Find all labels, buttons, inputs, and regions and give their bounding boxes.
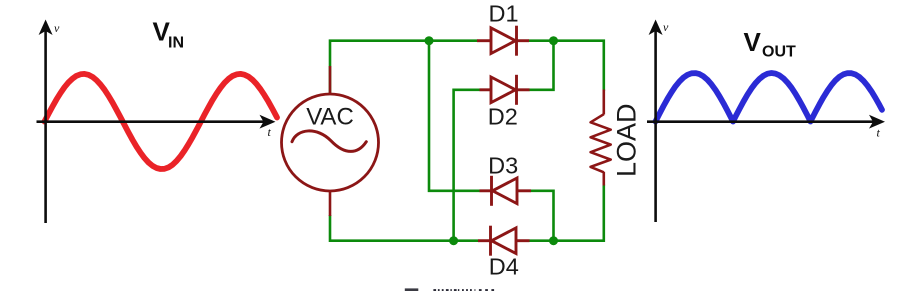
VAC top lead (dark red) [329, 66, 332, 94]
watermark text fragment (cropped letter tops) [433, 289, 494, 291]
svg-text:IN: IN [168, 35, 184, 52]
wire top rail right segment [529, 41, 604, 91]
svg-text:D3: D3 [488, 153, 518, 179]
node N4 [549, 236, 558, 245]
svg-text:v: v [663, 20, 669, 34]
diode D3 (pointing left) [480, 176, 532, 206]
V_OUT vertical axis (v) [654, 28, 657, 222]
node N3 [449, 236, 458, 245]
VAC source circle [282, 94, 379, 191]
svg-text:LOAD: LOAD [612, 103, 642, 177]
V_IN red sine waveform [45, 74, 278, 169]
resistor LOAD zigzag [591, 114, 611, 172]
svg-text:D4: D4 [489, 254, 519, 280]
resistor LOAD leads (dark red) [602, 90, 605, 115]
wire top rail left segment [330, 41, 478, 93]
V_OUT blue rectified waveform [656, 73, 883, 122]
svg-text:t: t [877, 126, 881, 140]
svg-text:D2: D2 [488, 103, 518, 129]
V_IN horizontal axis (t) [37, 120, 267, 123]
wire N1 down to D3 row [429, 41, 480, 191]
watermark logo fragment (cropped at bottom) [405, 288, 419, 291]
wire D2 right up to N2 [529, 41, 554, 90]
V_OUT horizontal axis (t) [647, 120, 876, 123]
wire bottom rail right segment [529, 185, 604, 241]
node N1 [425, 36, 434, 45]
svg-text:OUT: OUT [762, 43, 796, 60]
svg-text:v: v [54, 21, 60, 35]
svg-text:t: t [268, 125, 272, 139]
diode D2 [480, 75, 530, 105]
wire bottom rail left segment [330, 215, 478, 241]
wire D3 right down to N4 [531, 191, 554, 241]
node N2 [549, 36, 558, 45]
diode D4 (pointing left) [478, 226, 530, 256]
wire D2 left down to N3 [454, 90, 480, 241]
svg-text:VAC: VAC [306, 104, 354, 131]
svg-text:V: V [744, 27, 762, 57]
VAC sine symbol [292, 131, 366, 152]
diode D1 [477, 26, 529, 56]
V_IN vertical axis (v) [44, 28, 47, 223]
svg-text:D1: D1 [488, 0, 518, 26]
VAC bottom lead (dark red) [329, 191, 332, 216]
